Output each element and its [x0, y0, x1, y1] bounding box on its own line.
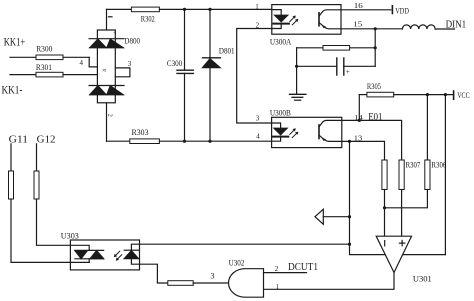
svg-text:+: + [346, 67, 350, 76]
node dot R305 tap [358, 119, 361, 122]
svg-text:4: 4 [256, 132, 260, 140]
pin 13 wire [342, 141, 385, 160]
U300A LED [272, 10, 289, 29]
resistor G11 leg [9, 144, 90, 263]
resistor (pin13 divider) [382, 160, 387, 236]
node dot arrow join [348, 215, 351, 218]
svg-text:D801: D801 [219, 47, 235, 56]
op-amp output wire [264, 273, 395, 290]
svg-text:E01: E01 [368, 112, 382, 123]
svg-text:1: 1 [255, 3, 259, 11]
U300B LED [272, 123, 289, 141]
svg-text:1: 1 [276, 283, 280, 291]
node dot VCC branch [444, 93, 447, 96]
wire left node down [296, 48, 298, 95]
wire top rail left [107, 8, 132, 10]
resistor (snubber) [297, 46, 376, 51]
wire bottom rail right [159, 140, 271, 142]
optocoupler U300A [270, 5, 341, 47]
ground [290, 94, 306, 100]
resistor R307 [399, 160, 420, 236]
node dot left node [295, 65, 298, 68]
resistor R305 [359, 82, 453, 97]
node dot bottom C300 [183, 140, 186, 143]
node dot pin13 branch [348, 140, 351, 143]
U300A phototransistor [319, 10, 341, 29]
svg-text:R305: R305 [367, 82, 381, 91]
optocoupler U300B [270, 108, 342, 147]
optocoupler U303 [61, 231, 140, 270]
AND gate U302 [229, 259, 264, 298]
svg-text:DIN1: DIN1 [446, 19, 467, 30]
svg-text:2: 2 [275, 265, 279, 273]
U303 photodiode [124, 244, 139, 264]
svg-text:3: 3 [211, 271, 215, 280]
wire VCC branch down [444, 95, 446, 255]
node dot divider join [383, 206, 386, 209]
svg-text:KK1+: KK1+ [4, 36, 26, 48]
U300B light arrows [290, 128, 299, 137]
svg-text:≈: ≈ [103, 67, 107, 75]
power VDD [392, 6, 409, 16]
bridge pin 1 stub [107, 9, 113, 30]
wire feedback vertical [350, 141, 446, 254]
svg-text:G12: G12 [37, 134, 56, 145]
resistor G12 leg [34, 144, 70, 246]
wire R300 to bridge pin 4 [89, 57, 97, 67]
wire top rail right [159, 8, 271, 10]
node dot pin15 branch [374, 27, 377, 30]
pin 14 wire [342, 120, 402, 160]
bridge rectifier D800 [89, 30, 124, 103]
pin 15 wire [341, 28, 402, 30]
svg-text:3: 3 [128, 60, 132, 68]
wire pin15 branch down [374, 29, 376, 67]
svg-text:DCUT1: DCUT1 [288, 262, 318, 273]
svg-text:2: 2 [106, 114, 112, 117]
resistor R302 [131, 7, 159, 24]
resistor R306 [385, 95, 447, 208]
svg-text:R306: R306 [431, 161, 446, 170]
node dot U303 wire join [348, 243, 351, 246]
wire U303 to comparator [140, 243, 350, 245]
op-amp U301 [376, 236, 432, 283]
svg-text:VCC: VCC [457, 91, 469, 100]
wire R305 tap down to pin14 [358, 95, 360, 121]
svg-text:3: 3 [256, 115, 260, 123]
pin 16 wire [341, 9, 391, 11]
svg-text:R307: R307 [406, 161, 421, 170]
diode D801 [203, 9, 235, 141]
svg-text:U300B: U300B [270, 108, 291, 117]
svg-text:U303: U303 [61, 231, 79, 240]
svg-text:C300: C300 [167, 59, 182, 68]
bridge pin 3 loop [115, 60, 132, 77]
wire pin2 to pin3 [237, 29, 272, 124]
node dot top D801 [208, 8, 211, 11]
resistor R303 [130, 128, 160, 143]
port arrow [315, 209, 350, 224]
U300A light arrows [290, 16, 299, 25]
svg-text:16: 16 [354, 1, 363, 10]
resistor (gate input) [168, 271, 229, 285]
svg-text:4: 4 [80, 59, 84, 67]
wire bottom rail left [107, 140, 130, 142]
capacitor C300 [167, 9, 194, 141]
svg-text:U302: U302 [229, 259, 245, 268]
U303 back-to-back LEDs [70, 245, 103, 262]
node dot bottom D801 [208, 140, 211, 143]
U300B phototransistor [319, 120, 342, 141]
svg-text:R303: R303 [132, 128, 149, 137]
svg-text:13: 13 [354, 134, 363, 143]
wire U303 lower out to gate resistor [140, 264, 168, 283]
pin 2 stub DCUT1 [264, 262, 319, 273]
svg-text:15: 15 [353, 20, 362, 29]
svg-text:R301: R301 [36, 63, 52, 72]
svg-text:U300A: U300A [270, 38, 292, 47]
svg-text:R300: R300 [36, 45, 52, 54]
resistor R300 [10, 45, 89, 60]
power VCC [454, 91, 470, 100]
svg-text:VDD: VDD [395, 7, 409, 16]
node dot resistor right [374, 46, 377, 49]
capacitor (polarized) [297, 58, 376, 76]
U303 light arrows [114, 251, 122, 261]
bridge pin 2 stub [106, 103, 112, 141]
svg-text:U301: U301 [413, 274, 432, 283]
svg-text:D800: D800 [124, 36, 140, 45]
svg-text:+: + [113, 30, 117, 36]
inductor L [402, 25, 454, 29]
node dot top C300 [183, 8, 186, 11]
resistor R301 [10, 63, 97, 77]
svg-text:KK1-: KK1- [2, 84, 23, 96]
svg-text:R302: R302 [141, 15, 155, 24]
node dot R306 top [426, 93, 429, 96]
